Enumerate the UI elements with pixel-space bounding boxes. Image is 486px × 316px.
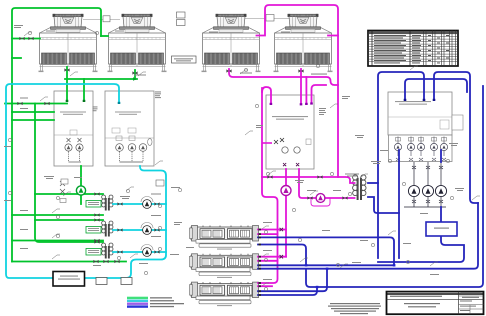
box A bottom drop [80, 166, 82, 185]
TK box [156, 180, 164, 186]
chiller to HX header [262, 177, 355, 183]
scattered tiny annotations [4, 25, 464, 280]
green pump [76, 186, 85, 195]
HX supply rows [35, 104, 103, 243]
big pumps right [404, 162, 446, 207]
pump section box under right chiller [389, 135, 453, 162]
AHU row 1 [258, 237, 394, 265]
left heat exchangers (3, transformer style) [102, 195, 113, 211]
AHU port fittings [259, 229, 261, 296]
junction blobs [305, 264, 396, 288]
AHU row 3 [258, 269, 327, 292]
connection dots [270, 102, 313, 105]
cooling tower CT-4 [274, 14, 333, 72]
pump 2 line [299, 169, 316, 198]
fan interconnect line T3-T4 [245, 18, 290, 20]
top loop riser [12, 8, 101, 262]
magenta pumps [281, 186, 291, 196]
T3 drain to header with S-jog to riser [229, 69, 338, 85]
air handler AHU-1 [190, 226, 259, 250]
bypass riser down to AHU riser [258, 88, 278, 283]
expansion tank ET [426, 222, 457, 236]
T4 drain [300, 69, 302, 104]
air handler AHU-2 [190, 254, 259, 278]
cooling towers label box [172, 56, 197, 63]
bottom loop [378, 236, 464, 262]
AHU stubs [258, 229, 286, 231]
cooling tower CT-2 [108, 14, 167, 72]
chiller drop 3 [305, 77, 307, 104]
small tanks on cyan line [96, 278, 107, 285]
fan control box T3-T4 [266, 15, 274, 22]
cyan pumps [143, 200, 152, 257]
leader arrow lines [24, 32, 480, 286]
HX blue side [368, 182, 378, 184]
T4 right shoulder stub [328, 35, 338, 37]
chiller bypass vertical [398, 150, 400, 258]
tiny instrument bubbles [8, 31, 453, 290]
pump bypass arcs [141, 197, 153, 251]
CT-4 top loop [257, 5, 339, 177]
chiller box B [105, 91, 154, 166]
pump 1 drop [285, 169, 287, 185]
n loop into chiller [262, 87, 271, 104]
cooling tower CT-3 [202, 14, 261, 72]
fan control box T1-T2 [103, 16, 110, 22]
keynote boxes [177, 12, 186, 18]
heat exchanger HX mid-right (transformer style) [353, 175, 366, 200]
X-valves on magenta stubs [280, 228, 283, 259]
chilled water loop main [6, 84, 166, 278]
chiller drop 4 [312, 85, 327, 104]
air handler AHU-3 [190, 282, 259, 306]
fan interconnect line T1-T2 [83, 19, 120, 21]
bypass marks near box A bottom [60, 181, 65, 194]
loops above right chiller [378, 72, 424, 258]
AHU row 2 [258, 264, 394, 266]
return to plant [5, 103, 67, 105]
manifold arrow [133, 77, 137, 81]
green flow label boxes [86, 201, 101, 256]
chiller box A [54, 91, 93, 166]
branch to CT-1 [12, 38, 40, 40]
pump2 bypass U [311, 198, 330, 206]
tower drains [66, 67, 68, 101]
cooling tower CT-1 [39, 14, 98, 72]
right risers [258, 203, 478, 269]
